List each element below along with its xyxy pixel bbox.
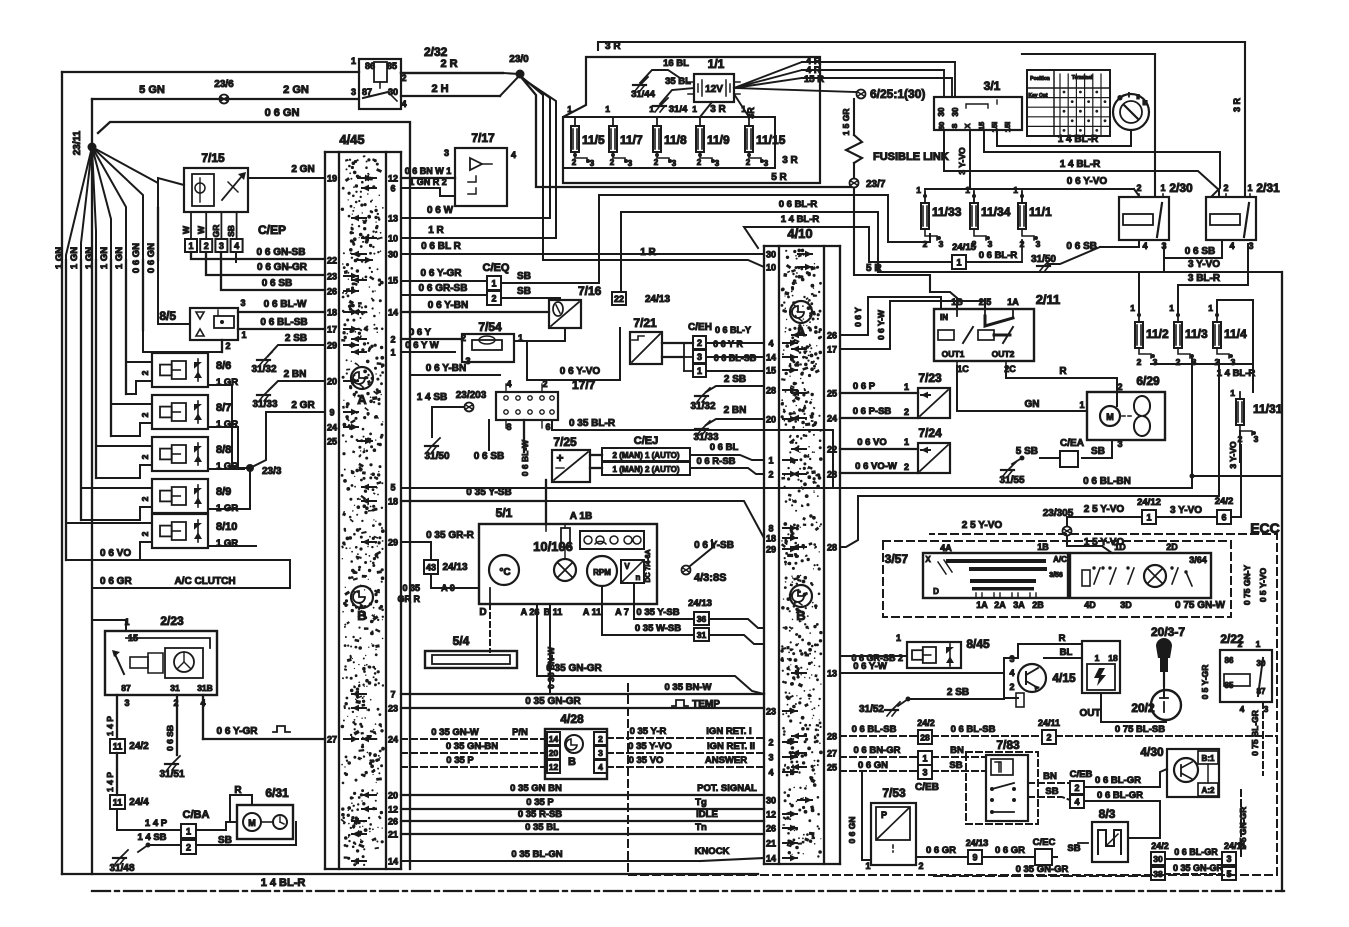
svg-text:Tg: Tg [695, 797, 707, 808]
svg-text:1 GN: 1 GN [84, 247, 95, 269]
svg-text:X: X [925, 555, 931, 564]
svg-text:2: 2 [918, 861, 923, 871]
svg-text:BL: BL [1060, 647, 1073, 658]
svg-text:2 SB: 2 SB [724, 374, 746, 385]
svg-text:8/6: 8/6 [216, 360, 231, 372]
svg-text:3D: 3D [1120, 600, 1132, 610]
svg-text:43: 43 [426, 562, 436, 572]
wire bottom loop [62, 873, 758, 875]
wire 7/25 to CEJ [590, 455, 602, 468]
component 5/1 gauges [580, 531, 644, 549]
svg-text:1D: 1D [1114, 542, 1126, 552]
wire 1.4 SB [417, 392, 464, 420]
wire 3 R fuse right [782, 155, 798, 166]
svg-text:1: 1 [351, 56, 356, 66]
svg-text:2: 2 [140, 370, 150, 375]
svg-text:RPM: RPM [593, 568, 611, 577]
connector 24/2 bottom [1151, 841, 1246, 880]
wire 7/21 pins [662, 343, 693, 357]
svg-text:23: 23 [327, 272, 337, 282]
svg-text:1: 1 [1208, 303, 1213, 313]
svg-text:1: 1 [186, 826, 191, 836]
svg-text:38: 38 [1153, 869, 1163, 879]
svg-text:2/31: 2/31 [1256, 181, 1280, 195]
svg-text:20: 20 [388, 791, 398, 801]
connector strip 4/10 [764, 226, 840, 864]
svg-text:SB: SB [226, 225, 236, 237]
svg-text:GR R: GR R [398, 594, 421, 604]
relay 2/30 [1119, 181, 1193, 251]
component 7/16 [527, 284, 602, 341]
svg-text:3 Y-VO: 3 Y-VO [1188, 259, 1220, 270]
wire 7/54 right [514, 341, 527, 380]
svg-text:30: 30 [766, 796, 776, 806]
dashed 0.35 VO [607, 755, 764, 767]
svg-text:0 35 BN-W: 0 35 BN-W [665, 682, 712, 693]
svg-text:SB: SB [517, 286, 531, 297]
svg-text:3 R: 3 R [782, 155, 798, 166]
svg-text:23/6: 23/6 [214, 79, 234, 90]
svg-text:IN: IN [940, 313, 948, 322]
svg-text:7/24: 7/24 [918, 426, 942, 440]
wire 7/15 top feed [158, 178, 184, 208]
component 1/1 battery [688, 57, 740, 102]
svg-text:10: 10 [766, 263, 776, 273]
svg-text:11: 11 [113, 741, 123, 751]
svg-text:0 6 Y-BN: 0 6 Y-BN [426, 363, 466, 374]
svg-text:14: 14 [388, 308, 398, 318]
wire 0.6 Y-W [840, 301, 985, 349]
svg-text:2: 2 [491, 293, 496, 303]
wire 6/31 R loop [230, 795, 252, 822]
svg-text:4/15: 4/15 [1052, 671, 1076, 685]
svg-text:A: A [357, 392, 367, 407]
svg-text:4: 4 [401, 99, 406, 109]
wire 0 6 Y-SB label [694, 540, 734, 551]
wire 0.6 VO-W [840, 461, 918, 473]
svg-text:0 6 BL-R: 0 6 BL-R [779, 199, 818, 210]
svg-text:20: 20 [766, 415, 776, 425]
component 8/6 [140, 353, 238, 388]
svg-text:A/C: A/C [1053, 555, 1067, 564]
wire 2/30 pin4 sb [1066, 240, 1139, 252]
svg-text:18: 18 [327, 308, 337, 318]
svg-text:0 35 BL-GN: 0 35 BL-GN [511, 849, 562, 860]
fuse 11/31 [1228, 388, 1283, 469]
svg-text:0 5 Y-VO: 0 5 Y-VO [1258, 567, 1268, 602]
svg-text:W: W [181, 225, 191, 234]
wire 0.6 Y [840, 297, 941, 335]
svg-text:0 6 GN: 0 6 GN [265, 107, 300, 119]
pins 4/45 right [352, 174, 398, 867]
svg-text:1: 1 [697, 366, 702, 376]
svg-text:3/1: 3/1 [984, 79, 1001, 93]
svg-text:3: 3 [922, 767, 927, 777]
svg-text:2: 2 [572, 158, 577, 167]
svg-text:2: 2 [186, 842, 191, 852]
component 17/7 [496, 378, 596, 432]
svg-text:31/55: 31/55 [999, 475, 1024, 486]
wire A7 right [634, 583, 694, 619]
svg-text:3: 3 [1264, 704, 1269, 714]
wire top border [62, 72, 519, 74]
svg-text:3: 3 [240, 298, 245, 308]
svg-text:1: 1 [922, 753, 927, 763]
component 2/11 [934, 292, 1060, 374]
connector 43 24/13 [398, 560, 480, 604]
wire fuse1 bus [925, 176, 1139, 203]
connector 24/4 11 [110, 795, 149, 809]
svg-text:30: 30 [1153, 854, 1163, 864]
dashed 7/83 right [1028, 771, 1070, 800]
wire 0.6 BN W 1 [401, 166, 455, 178]
symbol 4/10 A [790, 301, 812, 339]
component 7/17 [444, 131, 516, 206]
svg-text:3A: 3A [1013, 600, 1025, 610]
wire 0.6 P [840, 381, 918, 393]
wire A11 down [602, 586, 694, 635]
svg-text:A:2: A:2 [1202, 786, 1215, 795]
svg-text:A 7: A 7 [615, 607, 629, 617]
svg-text:1 GN: 1 GN [114, 247, 125, 269]
svg-text:4: 4 [1142, 241, 1147, 251]
component 7/83 [966, 738, 1038, 824]
svg-text:0 75 BL-SB: 0 75 BL-SB [1115, 724, 1165, 735]
svg-text:17: 17 [827, 345, 837, 355]
svg-text:0 5 Y-GR: 0 5 Y-GR [1200, 665, 1210, 700]
svg-text:31/33: 31/33 [693, 432, 718, 443]
symbol 4/45 B [351, 586, 373, 623]
svg-text:2D: 2D [1166, 542, 1178, 552]
symbol 4/10 B [790, 585, 812, 623]
svg-text:1: 1 [241, 330, 246, 340]
svg-text:2 BN: 2 BN [724, 405, 747, 416]
svg-text:n: n [636, 573, 641, 582]
wire 0.6 Y W [401, 340, 455, 352]
svg-text:28: 28 [766, 386, 776, 396]
svg-text:1: 1 [491, 278, 496, 288]
wire 0.6 Y [401, 327, 462, 339]
svg-text:4/30: 4/30 [1140, 745, 1164, 759]
wire 0.6 BL-W 17/7 [520, 420, 530, 476]
svg-text:1: 1 [649, 104, 654, 114]
svg-text:0 35 W-SB: 0 35 W-SB [635, 623, 681, 634]
svg-text:24: 24 [827, 414, 837, 424]
svg-text:0 35 R-SB: 0 35 R-SB [518, 809, 562, 820]
svg-text:0 6 BL-SB: 0 6 BL-SB [260, 317, 307, 328]
boundary ECC inner dashed [883, 541, 1231, 617]
svg-text:1: 1 [904, 382, 909, 392]
wire 3 R top [598, 41, 1245, 52]
svg-text:24/12: 24/12 [1137, 497, 1161, 508]
component 8/5 [159, 308, 238, 340]
svg-text:1A: 1A [976, 600, 988, 610]
svg-text:31/50: 31/50 [424, 451, 449, 462]
svg-text:3: 3 [1231, 357, 1236, 367]
pins 4/10 right [792, 331, 837, 773]
wire 1 GR collect [208, 385, 256, 546]
svg-text:1 GR: 1 GR [216, 419, 238, 430]
svg-text:0 6 Y W: 0 6 Y W [405, 340, 438, 351]
svg-text:25: 25 [327, 437, 337, 447]
svg-text:31: 31 [170, 683, 180, 693]
wire A26 down [537, 604, 764, 694]
svg-text:0 75 GN-Y: 0 75 GN-Y [1242, 565, 1252, 605]
wire 2 BN 31/33b [693, 405, 764, 443]
svg-text:11/7: 11/7 [620, 133, 643, 147]
svg-text:2: 2 [140, 496, 150, 501]
wire 1.5 Y-VO [1067, 536, 1124, 553]
svg-text:0 6 VO: 0 6 VO [100, 548, 131, 559]
svg-text:2: 2 [1117, 382, 1122, 392]
svg-text:30: 30 [951, 107, 960, 116]
svg-text:IGN RET. I: IGN RET. I [706, 726, 751, 737]
svg-text:0 6 Y-W: 0 6 Y-W [853, 661, 887, 672]
wire 3 R battery [700, 94, 756, 119]
svg-text:11: 11 [113, 797, 123, 807]
wire 2/23 feed [92, 620, 126, 631]
wire 6/29 pin2 [1116, 386, 1118, 406]
svg-text:DC 7/4-6A: DC 7/4-6A [645, 549, 652, 582]
svg-text:6: 6 [1221, 512, 1226, 522]
svg-text:0 6 BN-GR: 0 6 BN-GR [854, 745, 901, 756]
svg-text:2: 2 [923, 239, 928, 249]
svg-text:4: 4 [598, 762, 603, 772]
wire 16 BL [640, 58, 689, 83]
svg-text:23/11: 23/11 [72, 130, 83, 155]
svg-text:0 35 BL-R: 0 35 BL-R [569, 418, 616, 429]
svg-text:11/5: 11/5 [582, 133, 605, 147]
svg-text:2: 2 [1137, 357, 1142, 367]
component 8/45 [840, 633, 990, 668]
wire 1 GN R 2 [401, 177, 455, 196]
pins 4/45 left [327, 174, 372, 745]
svg-text:20/2: 20/2 [1131, 701, 1155, 715]
svg-text:2/11: 2/11 [1036, 292, 1061, 307]
svg-text:8/9: 8/9 [216, 486, 231, 498]
svg-text:0 35 VO: 0 35 VO [629, 755, 664, 766]
relay 2/31 [1206, 181, 1280, 251]
connector 24/2 11 [110, 739, 149, 753]
svg-text:5: 5 [1226, 869, 1231, 879]
svg-text:6/25:1(30): 6/25:1(30) [870, 87, 925, 101]
svg-text:GR: GR [211, 225, 221, 238]
svg-text:22: 22 [614, 294, 624, 304]
wire 5 R from 23/0 [521, 77, 851, 187]
svg-text:ANSWER: ANSWER [705, 755, 747, 766]
svg-text:1B: 1B [1037, 542, 1049, 552]
svg-text:23/3: 23/3 [262, 466, 282, 477]
svg-text:IGN RET. II: IGN RET. II [707, 741, 755, 752]
svg-text:11/15: 11/15 [756, 133, 786, 147]
svg-text:30: 30 [388, 87, 398, 97]
svg-text:B: B [796, 608, 805, 623]
connector C/EJ [602, 435, 690, 475]
svg-text:0 6 Y: 0 6 Y [853, 307, 863, 327]
svg-text:12: 12 [388, 805, 398, 815]
wire 1.5 GR [841, 99, 854, 135]
svg-text:OUT1: OUT1 [942, 349, 965, 359]
svg-text:0 6 GN: 0 6 GN [131, 243, 142, 273]
wire 0.6 P-SB [840, 406, 918, 418]
svg-text:24/2: 24/2 [1151, 841, 1169, 851]
svg-text:7/15: 7/15 [201, 151, 225, 165]
svg-text:1: 1 [865, 861, 870, 871]
svg-text:0 6 Y-VO: 0 6 Y-VO [560, 366, 601, 377]
svg-text:1 4 BL-R: 1 4 BL-R [1060, 159, 1101, 170]
wire 3 Y-VO bot [1164, 244, 1220, 272]
dashed 0.35 GN-W [401, 727, 545, 739]
svg-text:3 Y-VO: 3 Y-VO [1228, 441, 1238, 469]
svg-text:24/13: 24/13 [645, 294, 670, 305]
svg-text:0 35 GN-BN: 0 35 GN-BN [446, 741, 498, 752]
svg-text:0 6 P-SB: 0 6 P-SB [853, 406, 892, 417]
svg-text:2 SB: 2 SB [947, 687, 969, 698]
svg-text:5/1: 5/1 [496, 506, 513, 520]
svg-text:TEMP: TEMP [692, 699, 720, 710]
svg-text:11/8: 11/8 [664, 133, 687, 147]
svg-text:0 6 Y-GR: 0 6 Y-GR [421, 268, 463, 279]
svg-text:BN: BN [950, 745, 964, 756]
component 5/1 lamp [554, 559, 576, 581]
svg-text:0 6 VO-W: 0 6 VO-W [855, 461, 897, 472]
component 5/1 rpm [587, 556, 617, 586]
svg-text:0 6 GR: 0 6 GR [995, 845, 1025, 856]
svg-text:C/EQ: C/EQ [483, 262, 510, 274]
svg-text:9: 9 [972, 852, 977, 862]
svg-text:2/23: 2/23 [160, 614, 184, 628]
svg-text:7/23: 7/23 [918, 371, 942, 385]
pins 5/1 bottom [479, 588, 628, 618]
wire left border [61, 72, 63, 874]
svg-text:4D: 4D [1084, 600, 1096, 610]
svg-text:3 Y-VO: 3 Y-VO [1170, 505, 1202, 516]
svg-text:26: 26 [327, 287, 337, 297]
wire 0.6 W [401, 80, 550, 218]
svg-text:M: M [248, 818, 256, 828]
svg-text:1 5 GR: 1 5 GR [841, 109, 851, 136]
component 6/31 [196, 785, 293, 839]
svg-text:0 6 BL: 0 6 BL [710, 442, 739, 453]
wire 3/1 feeds [944, 62, 955, 97]
svg-text:POT. SIGNAL: POT. SIGNAL [697, 783, 757, 794]
wire fuse tops [575, 116, 749, 118]
svg-text:14: 14 [766, 854, 776, 864]
svg-text:1 GN: 1 GN [69, 247, 80, 269]
component 7/25 [552, 435, 590, 482]
svg-text:0 35 GN-GR: 0 35 GN-GR [1173, 863, 1224, 873]
svg-text:B: B [568, 756, 576, 768]
svg-text:0 35 P: 0 35 P [526, 797, 554, 808]
svg-text:2 GR: 2 GR [291, 400, 315, 411]
connector 24/15 [952, 240, 1022, 269]
svg-text:6: 6 [545, 422, 550, 432]
svg-text:0 35 Y-SB: 0 35 Y-SB [636, 607, 679, 618]
svg-text:31: 31 [697, 630, 707, 640]
wire 0.5 Y-GR [1200, 665, 1210, 700]
component 5/1 box [479, 506, 657, 604]
connector 6/25 [857, 87, 926, 101]
svg-text:6/31: 6/31 [265, 786, 289, 800]
connector C/EP [181, 212, 286, 252]
wire 6/31 SB [196, 822, 296, 845]
svg-text:R: R [1059, 633, 1066, 644]
wire POT SIGNAL [401, 783, 764, 795]
svg-text:1 GR: 1 GR [216, 538, 238, 549]
svg-text:B:1: B:1 [1202, 754, 1215, 763]
svg-text:5/4: 5/4 [453, 634, 470, 648]
svg-text:25: 25 [827, 389, 837, 399]
wire 2/23 15 loop [126, 638, 210, 648]
wire 11/3 down [1190, 358, 1283, 488]
wire 8/5 pin2 [143, 330, 231, 352]
svg-text:2: 2 [1136, 183, 1141, 193]
svg-text:4A: 4A [940, 543, 952, 553]
svg-text:7/53: 7/53 [882, 786, 906, 800]
svg-text:1: 1 [567, 104, 572, 114]
svg-text:0 6 BN W 1: 0 6 BN W 1 [405, 166, 452, 176]
wire 5/1 D dashed [489, 604, 491, 652]
svg-text:2: 2 [1238, 639, 1243, 649]
wire 0.75 BL-GR [1250, 702, 1263, 775]
svg-text:C/EP: C/EP [258, 223, 286, 237]
svg-text:3: 3 [988, 239, 993, 249]
svg-text:1: 1 [1130, 303, 1135, 313]
ground 31/44 [631, 77, 655, 100]
wire KNOCK [401, 846, 764, 861]
wire bottom 1.4 BL-R [92, 877, 1284, 891]
wire 0.6 Y-BN 2 [410, 363, 500, 375]
svg-text:4/10: 4/10 [787, 226, 812, 241]
svg-text:1 4 P: 1 4 P [105, 772, 115, 792]
svg-text:23: 23 [388, 704, 398, 714]
component 20/2 [1131, 686, 1181, 720]
wire 0.6 SB [221, 252, 325, 290]
wire 0.75 GN-Y [1242, 565, 1268, 605]
ground 31/50b [1031, 247, 1100, 272]
svg-text:31/48: 31/48 [109, 863, 134, 874]
svg-text:0 6 GN: 0 6 GN [858, 760, 888, 771]
wire battery fan [734, 56, 856, 92]
svg-text:0 6 BL-Y: 0 6 BL-Y [715, 325, 751, 335]
svg-text:11/2: 11/2 [1146, 327, 1169, 341]
svg-text:OUT: OUT [1079, 708, 1100, 719]
wire 8/5 feed [158, 208, 190, 324]
svg-text:24/15: 24/15 [952, 242, 976, 253]
wire 8/10 feed [66, 523, 152, 560]
svg-text:4: 4 [506, 379, 511, 389]
svg-text:8/10: 8/10 [216, 521, 237, 533]
svg-text:24/2: 24/2 [129, 741, 149, 752]
wire 1GN runs [66, 208, 158, 560]
component 8/9 [140, 479, 238, 514]
wire ecc bottom misc [0, 0, 1, 1]
wire GN-GR pin7 [401, 682, 764, 694]
svg-text:23/0: 23/0 [509, 54, 529, 65]
connector 24/13 22 [612, 292, 670, 305]
wire 0.35 GR-R [401, 530, 475, 560]
wire 1.4 BL-R run [984, 130, 1220, 196]
svg-text:17: 17 [327, 325, 337, 335]
table key positions [1027, 70, 1110, 136]
svg-text:C/EJ: C/EJ [634, 435, 658, 447]
svg-text:21: 21 [388, 830, 398, 840]
svg-text:1: 1 [390, 348, 395, 358]
svg-text:1: 1 [1256, 639, 1261, 649]
svg-text:0 6 BL-R: 0 6 BL-R [979, 250, 1018, 261]
svg-text:27: 27 [327, 735, 337, 745]
svg-text:7/83: 7/83 [996, 738, 1020, 752]
